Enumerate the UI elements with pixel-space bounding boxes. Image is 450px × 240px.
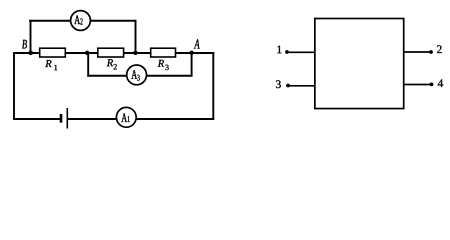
label A1 (meter) xyxy=(121,113,129,122)
label A3 (meter) xyxy=(131,70,139,81)
battery positive plate (long) xyxy=(66,108,68,129)
wire R3 to right rail xyxy=(176,52,215,54)
black box component xyxy=(315,19,404,109)
terminal 4 lead xyxy=(404,84,432,86)
terminal 4 dot xyxy=(430,83,434,87)
wire A2 drop to main line xyxy=(135,20,137,53)
terminal 2 dot xyxy=(429,50,433,54)
ammeter A1 xyxy=(116,107,136,127)
terminal 2 label xyxy=(437,45,442,53)
wire A2 branch right xyxy=(90,20,137,22)
terminal 1 dot xyxy=(285,50,289,54)
node B junction xyxy=(29,51,33,55)
terminal 4 label xyxy=(438,79,443,87)
resistor R1 xyxy=(40,48,66,57)
wire main line rail to R1 xyxy=(13,52,39,54)
node A label xyxy=(194,39,200,48)
terminal 3 lead xyxy=(288,85,315,87)
terminal 1 lead xyxy=(287,51,315,53)
resistor R2 xyxy=(98,48,124,57)
node B label xyxy=(22,40,27,49)
wire battery to A1 xyxy=(67,118,117,120)
label A2 (meter) xyxy=(74,15,82,24)
node A junction xyxy=(189,51,193,55)
label R2 xyxy=(107,59,117,69)
ammeter A2 xyxy=(71,11,91,31)
wire A2 branch left xyxy=(29,20,71,22)
ammeter A3 xyxy=(127,65,147,85)
wire A3 branch left segment xyxy=(87,75,127,77)
wire R1 to R2 xyxy=(65,52,97,54)
wire A3 drop left xyxy=(87,53,89,77)
wire R2 to R3 xyxy=(124,52,151,54)
terminal 3 dot xyxy=(286,84,290,88)
terminal 2 lead xyxy=(404,51,431,53)
wire right rail xyxy=(212,52,214,120)
junction R2-R3 node xyxy=(133,51,137,55)
label R3 xyxy=(158,60,169,70)
junction R1-R2 node xyxy=(85,51,89,55)
label R1 xyxy=(45,60,57,70)
resistor R3 xyxy=(151,48,176,57)
wire left rail xyxy=(13,53,15,120)
wire A3 branch right segment xyxy=(146,75,193,77)
wire bottom left segment xyxy=(13,118,60,120)
terminal 1 label xyxy=(277,46,281,54)
wire A3 riser to node A xyxy=(191,53,193,77)
battery negative plate (short) xyxy=(60,114,63,123)
terminal 3 label xyxy=(276,80,281,88)
wire A1 to right rail xyxy=(136,118,215,120)
wire riser from node B xyxy=(30,20,32,53)
